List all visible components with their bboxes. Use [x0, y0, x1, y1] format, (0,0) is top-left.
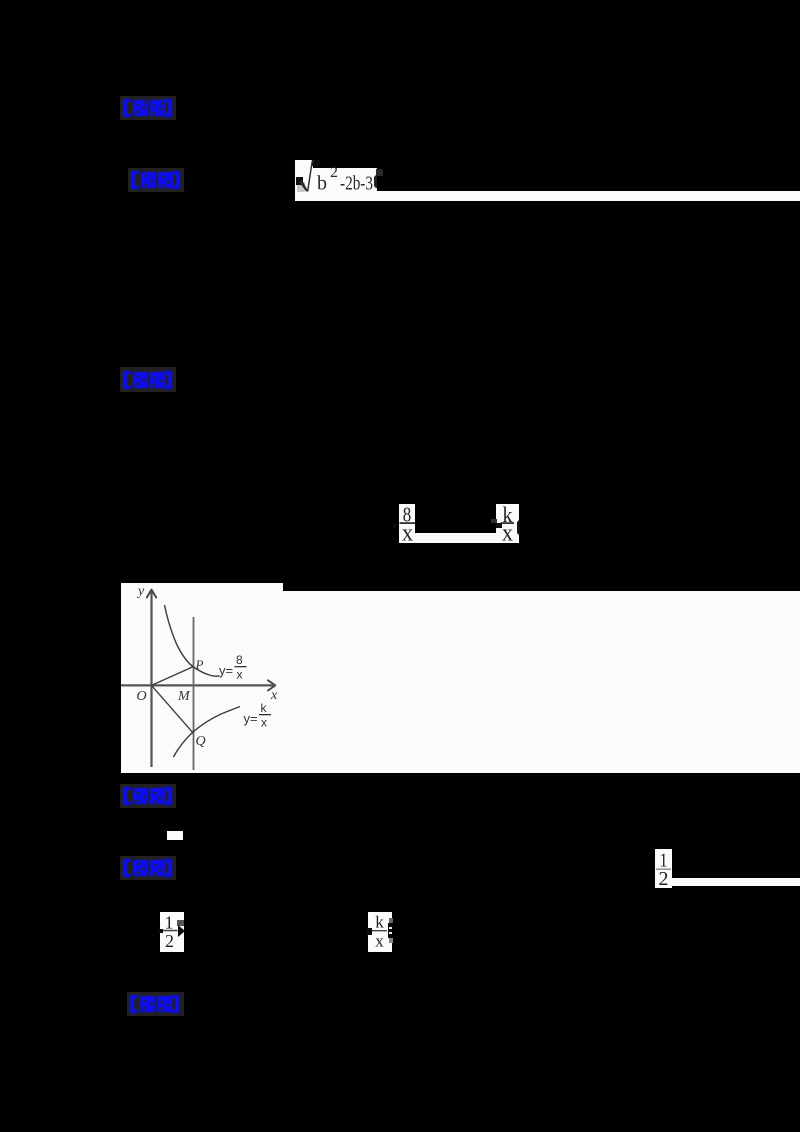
labels [136, 584, 278, 749]
svg-text:2: 2 [330, 164, 338, 181]
svg-text:-2b-3: -2b-3 [340, 173, 373, 195]
dark square before k/x [491, 519, 497, 523]
marker 3 blue tag [120, 367, 176, 392]
marker 1 blue tag [120, 96, 176, 120]
fraction 8/x white box [399, 504, 415, 543]
svg-text:k: k [375, 913, 384, 932]
equation sqrt(b^2-2b-3) white blocks [295, 160, 313, 192]
dark square after 3 [376, 169, 383, 176]
y=8/x label [219, 653, 271, 730]
line O-P [152, 667, 194, 686]
bullet before 8/x [393, 524, 397, 528]
svg-text:k: k [261, 701, 268, 715]
svg-text:P: P [195, 657, 204, 672]
svg-text:8: 8 [236, 653, 243, 667]
svg-text:2: 2 [165, 931, 174, 951]
black tab left of k/x [496, 523, 502, 528]
paren fragment clipped at box edge [374, 175, 377, 188]
expression text [295, 156, 385, 196]
big white graph area left part [121, 583, 283, 773]
black tab left of k/x [366, 928, 372, 935]
8/x glyphs [399, 504, 415, 543]
marker 4 blue tag [120, 784, 176, 808]
black mark right of k/x [388, 923, 392, 938]
svg-text:x: x [270, 688, 278, 703]
gray squares near k/x right [389, 918, 393, 923]
paren fragment right of k/x [517, 520, 520, 535]
bullet before radical [296, 177, 303, 185]
svg-text:y=: y= [244, 711, 258, 726]
line O-Q [152, 685, 194, 733]
big white graph area right part [283, 591, 800, 773]
black arrow right of 1/2 [178, 925, 185, 937]
fraction k/x in text row [368, 912, 392, 952]
hyperbola 2 y=k/x [173, 707, 240, 758]
svg-text:y=: y= [219, 663, 233, 678]
marker 2 blue tag [128, 168, 184, 192]
hyperbola 1 y=8/x [165, 605, 220, 676]
fraction k/x white box [496, 504, 519, 543]
marker 5 blue tag [120, 856, 176, 880]
k/x glyphs [496, 504, 519, 543]
small white dash [167, 831, 183, 840]
fraction 1/2 in text row [160, 912, 184, 952]
svg-text:O: O [137, 689, 147, 704]
svg-text:x: x [261, 716, 267, 730]
black notch top of radical [312, 160, 320, 166]
svg-text:Q: Q [196, 734, 206, 749]
x axis [121, 684, 273, 686]
svg-text:x: x [237, 668, 243, 682]
light gray square under bullet [297, 182, 305, 192]
svg-text:2: 2 [659, 868, 669, 888]
svg-text:b: b [317, 173, 327, 195]
graph drawing [121, 583, 321, 773]
strip right of 1/2 [672, 878, 800, 886]
svg-text:1: 1 [165, 913, 174, 933]
vertical line PQ [193, 617, 195, 770]
y axis [150, 591, 152, 767]
bullet left of 1/2 [158, 929, 163, 933]
svg-text:M: M [177, 689, 191, 704]
gray block above arrow [177, 920, 184, 926]
marker 6 blue tag [127, 992, 184, 1016]
svg-text:x: x [375, 932, 384, 951]
strip between fractions [415, 533, 496, 543]
svg-text:y: y [136, 584, 145, 599]
selection strip line 1 [295, 191, 800, 201]
fraction 1/2 far right [655, 849, 672, 888]
